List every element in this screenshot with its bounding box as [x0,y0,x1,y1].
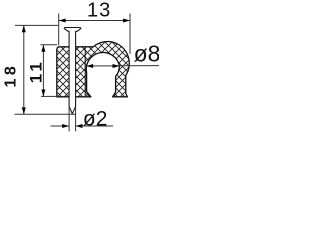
dimension 18: bottom arrow [22,107,26,114]
dimension 13: dimension line [59,20,130,22]
clip back-plate right edge line [84,47,86,97]
dimension 11: bottom extension line [41,95,57,97]
dimension o8: left arrow [86,64,93,68]
dimension 13: left extension line [58,14,60,46]
dimension 18: top extension line [15,24,59,26]
dimension 11: top extension line [41,44,58,46]
dimension o8: leader/dimension line through hoop [86,65,159,67]
dimension o2: left dimension line with right-pointing arrow [51,125,70,127]
nail (head, shaft, tip) [64,28,81,114]
svg-text:ø8: ø8 [134,41,159,67]
dimension 13: left arrow [59,19,66,23]
dimension 18: dimension line [23,25,25,114]
clip body (hatched cross-section outline) [57,42,130,97]
dimension 13: right extension line [129,14,131,55]
dimension 18: bottom extension line [15,113,76,115]
dimension 11: bottom arrow [41,90,45,97]
svg-text:ø2: ø2 [83,108,108,131]
svg-text:18: 18 [3,63,20,88]
svg-text:13: 13 [87,0,111,21]
dimension 11: dimension line [42,45,44,97]
dimension 13: right arrow [123,19,130,23]
dimension o2: right dimension line with left-pointing arrow [76,125,113,127]
dimension 18: top arrow [22,25,26,32]
dimension o2: shaft extension lines [68,107,70,131]
dimension 11: top arrow [41,45,45,52]
svg-text:11: 11 [27,59,46,83]
dimension o8: right arrow [113,64,120,68]
